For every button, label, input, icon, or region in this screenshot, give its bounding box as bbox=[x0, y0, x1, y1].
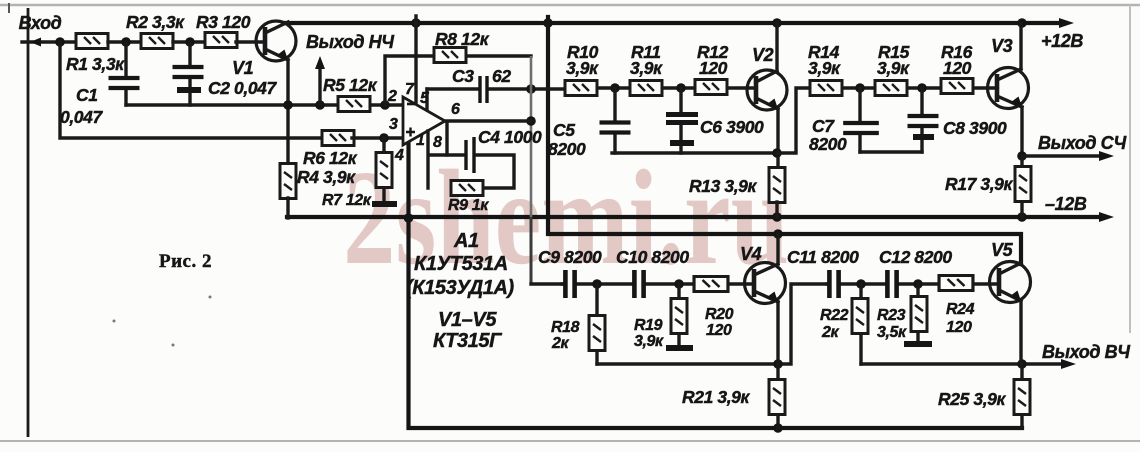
input arrow bbox=[30, 38, 41, 47]
wire R4 to -12V rail bbox=[286, 198, 289, 218]
wire R1 to R2 bbox=[108, 40, 141, 43]
wire V2 collector to +12V bbox=[775, 23, 778, 71]
resistor R4 bbox=[280, 164, 296, 199]
resistor R1 bbox=[76, 34, 108, 49]
svg-text:R5 12к: R5 12к bbox=[323, 75, 378, 95]
resistor R7 bbox=[382, 138, 385, 202]
wire -12V right arrow bbox=[1099, 212, 1114, 222]
capacitor C6 bbox=[679, 88, 682, 153]
wire V4 emitter down to bottom rail bbox=[776, 302, 779, 428]
svg-text:R25 3,9к: R25 3,9к bbox=[938, 389, 1006, 409]
svg-text:3,9к: 3,9к bbox=[630, 58, 663, 78]
wire input riser to lower feed bbox=[60, 42, 324, 138]
capacitor C2 bbox=[188, 42, 191, 105]
wire V1 emitter down bbox=[286, 60, 289, 166]
wire R14..V3 row bbox=[811, 86, 997, 89]
svg-text:8200: 8200 bbox=[809, 134, 847, 154]
resistor R8 bbox=[434, 48, 466, 63]
node emitter/wireA bbox=[283, 100, 293, 110]
svg-text:2: 2 bbox=[387, 88, 397, 105]
resistor R18 bbox=[595, 284, 598, 364]
resistor R6 bbox=[322, 131, 354, 146]
svg-text:1: 1 bbox=[416, 132, 425, 149]
wire +12V top rail bbox=[285, 21, 1059, 25]
svg-text:К1УТ531А: К1УТ531А bbox=[414, 253, 508, 275]
svg-text:Выход СЧ: Выход СЧ bbox=[1038, 133, 1127, 153]
resistor R17 bbox=[1020, 156, 1023, 217]
svg-text:С9 8200: С9 8200 bbox=[538, 247, 602, 267]
resistor R22 bbox=[859, 284, 862, 364]
svg-text:R8 12к: R8 12к bbox=[435, 29, 490, 49]
svg-text:8200: 8200 bbox=[548, 139, 586, 159]
svg-text:R6 12к: R6 12к bbox=[303, 148, 358, 168]
svg-text:120: 120 bbox=[706, 322, 732, 339]
svg-text:R3 120: R3 120 bbox=[196, 12, 251, 32]
resistor R20 bbox=[694, 277, 728, 292]
svg-text:R4 3,9к: R4 3,9к bbox=[297, 167, 356, 187]
node top rail / V3 collector bbox=[1017, 18, 1027, 28]
capacitor C4 bbox=[466, 127, 542, 173]
resistor R2 bbox=[141, 34, 173, 49]
svg-text:R13 3,9к: R13 3,9к bbox=[689, 176, 757, 196]
node input junction bbox=[55, 37, 65, 47]
node R2/R3/C2 bbox=[185, 37, 195, 47]
svg-text:С12 8200: С12 8200 bbox=[879, 247, 952, 267]
svg-text:R21 3,9к: R21 3,9к bbox=[682, 387, 750, 407]
transistor V5 bbox=[990, 240, 1031, 303]
svg-text:R22: R22 bbox=[820, 307, 849, 324]
wire C7 bottom to C8 ground bbox=[860, 150, 922, 153]
node R8 riser bbox=[380, 100, 390, 110]
svg-text:(К153УД1А): (К153УД1А) bbox=[406, 277, 515, 299]
resistor R19 bbox=[677, 284, 680, 345]
svg-text:С2 0,047: С2 0,047 bbox=[208, 78, 277, 98]
wire Выход ВЧ output bbox=[861, 362, 1063, 365]
svg-text:С4 1000: С4 1000 bbox=[478, 127, 542, 147]
node -12V / R13 bbox=[772, 212, 782, 222]
op-amp minus mark bbox=[407, 103, 415, 106]
node R15/R16/C8 bbox=[917, 83, 927, 93]
wire R18 feedback to V4 emitter and C11 riser bbox=[597, 284, 827, 364]
svg-text:R18: R18 bbox=[551, 319, 580, 336]
wire C3 to mid filter bbox=[489, 87, 566, 90]
svg-text:С8 3900: С8 3900 bbox=[943, 118, 1007, 138]
svg-text:0,047: 0,047 bbox=[60, 107, 103, 127]
op-amp output wire pin6 bbox=[445, 119, 531, 122]
wire R6 to pin3 bbox=[352, 136, 403, 139]
node top rail / V2 collector bbox=[772, 18, 782, 28]
node C11/C12/R22 bbox=[856, 279, 866, 289]
svg-text:С1: С1 bbox=[76, 85, 98, 105]
svg-text:С7: С7 bbox=[812, 116, 835, 136]
node R14/R15/C7 bbox=[855, 83, 865, 93]
wire V3 collector to +12V bbox=[1019, 23, 1022, 69]
svg-text:R17 3,9к: R17 3,9к bbox=[945, 174, 1013, 194]
wire pin5 stub bbox=[425, 89, 428, 111]
svg-text:3,9к: 3,9к bbox=[634, 333, 664, 350]
svg-text:Выход НЧ: Выход НЧ bbox=[306, 32, 395, 52]
resistor R25 bbox=[1020, 364, 1023, 428]
node C12/R23 bbox=[913, 279, 923, 289]
node top rail / +12V drop bus bbox=[543, 18, 553, 28]
svg-text:3,9к: 3,9к bbox=[877, 58, 910, 78]
svg-text:R19: R19 bbox=[634, 317, 663, 334]
svg-text:С3: С3 bbox=[452, 66, 474, 86]
wire R3 to V1 base bbox=[236, 40, 265, 43]
svg-text:2к: 2к bbox=[821, 324, 839, 341]
wire signal bus down to HF section bbox=[530, 56, 533, 217]
op-amp U1 triangle bbox=[403, 97, 445, 145]
wire input bbox=[22, 40, 76, 43]
svg-text:3,9к: 3,9к bbox=[566, 58, 599, 78]
svg-text:8: 8 bbox=[433, 134, 442, 151]
svg-text:6: 6 bbox=[451, 101, 460, 118]
node Выход СЧ bbox=[1017, 151, 1027, 161]
wire C5 bottom to V2 emitter node bbox=[612, 151, 777, 154]
svg-text:4: 4 bbox=[394, 147, 404, 164]
node top rail / op-amp pin7 bbox=[411, 18, 421, 28]
wire A: LPF node to op-amp pin2 bbox=[126, 103, 403, 106]
wire Выход СЧ bbox=[1022, 154, 1100, 157]
node C3 wire / signal bus bbox=[526, 84, 536, 94]
svg-text:+12В: +12В bbox=[1041, 31, 1083, 51]
wire -12V mid rail bbox=[287, 215, 1100, 219]
wire V4 collector to +12V bus bbox=[776, 234, 779, 264]
capacitor C3 bbox=[452, 66, 511, 103]
svg-text:62: 62 bbox=[492, 66, 511, 86]
transistor V3 bbox=[988, 36, 1029, 109]
resistor R12 bbox=[695, 80, 727, 95]
capacitor C5 bbox=[613, 88, 616, 153]
ground under R19 bbox=[666, 345, 693, 351]
svg-text:R23: R23 bbox=[877, 307, 906, 324]
resistor R10 bbox=[565, 81, 597, 96]
resistor R16 bbox=[941, 79, 973, 94]
resistor R15 bbox=[875, 81, 907, 96]
wire HF input row bbox=[562, 282, 754, 285]
svg-text:С11 8200: С11 8200 bbox=[787, 247, 859, 267]
svg-text:Выход ВЧ: Выход ВЧ bbox=[1042, 342, 1131, 362]
node -12V / pin4 drop bbox=[404, 213, 414, 223]
svg-text:–12В: –12В bbox=[1045, 194, 1087, 214]
resistor R13 bbox=[769, 168, 785, 203]
resistor R23 bbox=[916, 284, 919, 341]
svg-text:Вход: Вход bbox=[19, 13, 62, 33]
svg-text:R7 12к: R7 12к bbox=[322, 192, 372, 209]
svg-text:КТ315Г: КТ315Г bbox=[433, 330, 503, 352]
wire pin5/C3 wire left bbox=[427, 87, 478, 90]
svg-text:2к: 2к bbox=[551, 335, 569, 352]
resistor R9 bbox=[451, 181, 483, 196]
wire +12V right arrow bbox=[1059, 18, 1074, 28]
wire R8 to signal bus bbox=[467, 54, 531, 57]
ground under R23 bbox=[904, 341, 932, 347]
wire pin8 stub bbox=[445, 124, 448, 155]
svg-text:120: 120 bbox=[946, 319, 972, 336]
resistor R3 bbox=[205, 33, 237, 48]
svg-text:V3: V3 bbox=[991, 36, 1013, 56]
wire pin7 supply stub bbox=[414, 16, 417, 104]
capacitor C12 bbox=[887, 269, 896, 299]
wire pin1 stub and left loop bbox=[428, 131, 464, 188]
node bottom +12V rail / V4 collector bbox=[773, 229, 783, 239]
svg-text:120: 120 bbox=[943, 58, 972, 78]
transistor V2 bbox=[747, 45, 787, 111]
resistor R24 bbox=[939, 276, 973, 291]
node C10/R19 bbox=[674, 279, 684, 289]
node V2 emitter tap bbox=[772, 148, 782, 158]
node V5 emitter/output bbox=[1017, 359, 1027, 369]
transistor V4 bbox=[740, 244, 786, 304]
svg-text:R20: R20 bbox=[705, 306, 734, 323]
wire C4 to R9 right riser bbox=[476, 155, 514, 188]
wire C11..V5 row bbox=[827, 282, 999, 285]
svg-text:R2 3,3к: R2 3,3к bbox=[126, 12, 185, 32]
svg-text:3,5к: 3,5к bbox=[877, 324, 907, 341]
svg-text:С5: С5 bbox=[553, 120, 575, 140]
wire V2 emitter down bbox=[776, 109, 779, 168]
resistor R11 bbox=[630, 81, 662, 96]
svg-text:V1: V1 bbox=[232, 58, 254, 78]
svg-text:R1 3,3к: R1 3,3к bbox=[66, 54, 125, 74]
node R1/R2/C1 bbox=[121, 37, 131, 47]
node R7 junction bbox=[379, 133, 389, 143]
svg-text:Рис. 2: Рис. 2 bbox=[159, 251, 212, 272]
svg-text:R24: R24 bbox=[946, 301, 975, 318]
specks bbox=[209, 296, 212, 299]
svg-text:А1: А1 bbox=[453, 230, 479, 252]
svg-text:120: 120 bbox=[699, 58, 728, 78]
resistor R5 bbox=[338, 97, 370, 112]
node feedback/V4 emitter bbox=[773, 359, 783, 369]
svg-text:V4: V4 bbox=[740, 244, 762, 264]
capacitor C8 bbox=[920, 88, 923, 152]
svg-text:5: 5 bbox=[420, 90, 430, 107]
node output / signal bus bbox=[526, 116, 536, 126]
svg-text:V1–V5: V1–V5 bbox=[438, 309, 497, 331]
wire Выход НЧ arrow bbox=[318, 68, 321, 105]
svg-text:V5: V5 bbox=[991, 240, 1014, 260]
svg-text:R9 1к: R9 1к bbox=[448, 197, 489, 214]
resistor R21 bbox=[769, 380, 785, 415]
wire R13 to -12V bbox=[775, 202, 778, 217]
capacitor C1 bbox=[124, 42, 127, 105]
wire mid filter row bbox=[566, 86, 756, 89]
capacitor C10 bbox=[634, 269, 643, 299]
wire R2 to R3 bbox=[173, 40, 206, 43]
resistor R14 bbox=[810, 81, 842, 96]
svg-text:7: 7 bbox=[405, 81, 415, 98]
wire +12V feed bus down and bottom-section rail bbox=[548, 17, 1021, 264]
svg-text:3: 3 bbox=[389, 116, 398, 133]
svg-text:С10 8200: С10 8200 bbox=[616, 247, 689, 267]
svg-text:3,9к: 3,9к bbox=[808, 58, 841, 78]
wire R8 riser from pin2 node bbox=[385, 56, 434, 105]
wire -12V bottom rail bbox=[409, 140, 1023, 428]
frame border lines bbox=[0, 4, 1140, 6]
node C9/C10/R18 bbox=[592, 279, 602, 289]
node R11/R12/C6 bbox=[676, 83, 686, 93]
capacitor C7 bbox=[858, 88, 861, 152]
ground under R7 bbox=[372, 201, 397, 207]
node bottom rail / R21 bbox=[773, 423, 783, 433]
op-amp plus mark bbox=[406, 128, 415, 137]
capacitor C11 bbox=[829, 269, 838, 299]
svg-text:V2: V2 bbox=[752, 45, 774, 65]
wire V5 emitter down bbox=[1019, 301, 1022, 364]
wire V3 emitter down bbox=[1020, 107, 1023, 157]
capacitor C9 bbox=[565, 269, 574, 299]
node -12V / R17 bbox=[1017, 212, 1027, 222]
node R10/R11/C5 bbox=[610, 83, 620, 93]
wire emitter tap to R14 bbox=[777, 88, 811, 153]
transistor V1 bbox=[232, 21, 296, 78]
node output tap bbox=[315, 100, 325, 110]
svg-text:С6 3900: С6 3900 bbox=[700, 117, 764, 137]
